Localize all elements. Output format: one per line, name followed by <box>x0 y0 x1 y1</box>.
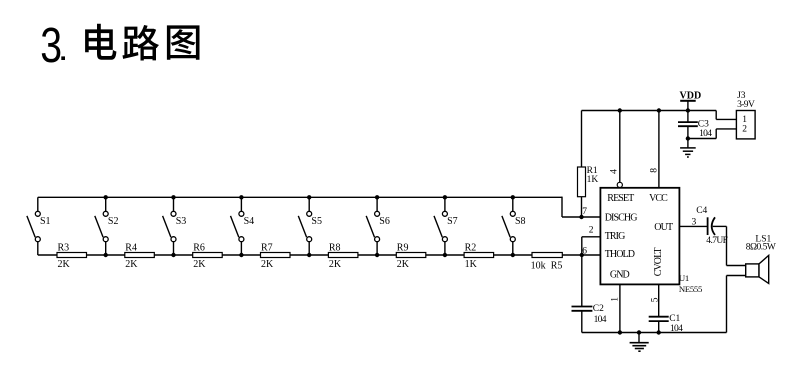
svg-text:R6: R6 <box>193 243 205 254</box>
resistor R4 <box>125 243 155 271</box>
wire C4 to speaker <box>713 226 746 265</box>
wire R1 top lead <box>581 111 583 168</box>
svg-text:R9: R9 <box>397 243 409 254</box>
svg-text:5: 5 <box>650 297 660 302</box>
svg-text:C4: C4 <box>696 206 707 216</box>
power symbol VDD <box>680 90 702 110</box>
node bottom bus junction at S6 <box>375 253 379 257</box>
connector J3 <box>736 91 755 139</box>
node top bus junction at S3 <box>171 195 175 199</box>
svg-text:1: 1 <box>611 297 621 302</box>
svg-text:S8: S8 <box>515 216 526 227</box>
node bottom bus junction at S4 <box>239 253 243 257</box>
ground main <box>630 333 649 352</box>
wire bottom switch bus <box>38 254 601 256</box>
svg-text:104: 104 <box>670 324 683 334</box>
node junction pin8/VDD rail <box>657 108 661 112</box>
svg-text:S2: S2 <box>108 216 119 227</box>
node junction TRIG/THOLD <box>580 253 584 257</box>
node top bus junction at S7 <box>443 195 447 199</box>
node bottom bus junction at S7 <box>443 253 447 257</box>
node junction C3/J3 <box>686 136 690 140</box>
svg-text:THOLD: THOLD <box>605 249 635 260</box>
svg-text:3: 3 <box>40 19 62 73</box>
svg-text:S5: S5 <box>311 216 322 227</box>
inversion bubble RESET <box>617 182 622 187</box>
wire speaker return <box>727 276 746 333</box>
title character 图 <box>167 25 200 59</box>
svg-text:R3: R3 <box>58 243 70 254</box>
ground below C3 <box>680 139 696 158</box>
wire DISCHG pin 7 lead <box>562 216 601 218</box>
svg-text:VCC: VCC <box>649 193 668 204</box>
wire J3 pin2 lead <box>688 129 737 139</box>
svg-text:8: 8 <box>650 168 660 173</box>
switch S8 <box>502 197 526 255</box>
svg-text:NE555: NE555 <box>679 284 702 294</box>
node top bus junction at S2 <box>104 195 108 199</box>
resistor R6 <box>193 243 223 271</box>
switch S4 <box>231 197 255 255</box>
switch S1 <box>27 197 51 255</box>
wire OUT pin 3 lead <box>679 225 708 227</box>
svg-text:RESET: RESET <box>607 193 634 204</box>
svg-text:GND: GND <box>610 270 630 281</box>
node junction VDD/C3 <box>686 108 690 112</box>
svg-text:4.7UF: 4.7UF <box>706 236 727 246</box>
title numeral 3. <box>40 19 65 73</box>
node top bus junction at S4 <box>239 195 243 199</box>
svg-text:104: 104 <box>594 315 607 325</box>
svg-text:C1: C1 <box>669 314 680 324</box>
resistor R8 <box>328 243 358 271</box>
capacitor C3 <box>678 111 712 140</box>
wire J3 pin1 lead <box>716 111 736 120</box>
svg-text:2K: 2K <box>329 259 342 270</box>
resistor R1 <box>578 166 599 197</box>
svg-text:S4: S4 <box>244 216 255 227</box>
svg-text:S3: S3 <box>176 216 187 227</box>
svg-text:TRIG: TRIG <box>605 231 625 242</box>
svg-text:4: 4 <box>610 169 620 174</box>
svg-text:3-9V: 3-9V <box>737 100 755 110</box>
svg-text:1: 1 <box>742 115 747 125</box>
svg-text:VDD: VDD <box>680 90 702 101</box>
node top bus junction at S8 <box>511 195 515 199</box>
svg-text:2K: 2K <box>193 259 206 270</box>
svg-text:2: 2 <box>589 226 594 236</box>
node junction R1/DISCHG <box>579 215 583 219</box>
svg-text:3: 3 <box>692 217 697 227</box>
node bottom bus junction at S5 <box>307 253 311 257</box>
node junction ground symbol/bus <box>637 330 641 334</box>
svg-text:8Ω0.5W: 8Ω0.5W <box>746 243 776 253</box>
node bottom bus junction at S2 <box>104 253 108 257</box>
svg-text:S1: S1 <box>40 216 51 227</box>
svg-text:10k: 10k <box>531 260 546 271</box>
svg-text:R4: R4 <box>125 243 137 254</box>
svg-text:U1: U1 <box>679 273 689 283</box>
resistor R7 <box>261 243 291 271</box>
resistor R9 <box>396 243 426 271</box>
wire R1 bottom lead <box>581 197 583 217</box>
svg-text:7: 7 <box>582 207 587 217</box>
svg-text:1K: 1K <box>587 175 599 185</box>
svg-text:R8: R8 <box>329 243 341 254</box>
wire TRIG riser and pin 2 lead <box>582 237 601 255</box>
wire VDD rail <box>582 110 717 112</box>
svg-text:OUT: OUT <box>654 222 673 233</box>
svg-text:2K: 2K <box>58 259 71 270</box>
switch S2 <box>95 197 119 255</box>
svg-text:C2: C2 <box>593 304 604 314</box>
capacitor C4 (polarized) <box>696 206 727 246</box>
svg-text:2K: 2K <box>397 259 410 270</box>
svg-text:2K: 2K <box>125 259 138 270</box>
resistor R3 <box>57 243 87 271</box>
wire ground bus <box>582 332 727 334</box>
resistor R5 <box>531 253 563 272</box>
resistor R2 <box>464 243 494 271</box>
wire top switch bus <box>38 197 562 217</box>
svg-text:104: 104 <box>699 129 712 139</box>
svg-text:R2: R2 <box>465 243 477 254</box>
svg-text:R5: R5 <box>551 260 563 271</box>
switch S7 <box>434 197 458 255</box>
switch S5 <box>298 197 322 255</box>
wire VCC pin 8 lead <box>658 111 660 188</box>
switch S3 <box>163 197 187 255</box>
svg-text:2: 2 <box>742 125 747 135</box>
svg-text:1K: 1K <box>465 259 478 270</box>
node top bus junction at S5 <box>307 195 311 199</box>
node junction GND/bus <box>618 330 622 334</box>
node junction pin4/VDD rail <box>618 108 622 112</box>
wire GND pin 1 lead <box>619 284 621 332</box>
speaker LS1 <box>746 235 776 284</box>
svg-text:S6: S6 <box>379 216 390 227</box>
switch S6 <box>366 197 390 255</box>
node junction C1/bus <box>657 330 661 334</box>
capacitor C2 <box>572 255 607 333</box>
svg-text:CVOLT: CVOLT <box>653 248 664 277</box>
title character 电 <box>85 24 116 60</box>
svg-text:DISCHG: DISCHG <box>605 213 638 224</box>
IC U1 NE555 body <box>600 188 679 285</box>
svg-text:S7: S7 <box>447 216 458 227</box>
node bottom bus junction at S3 <box>171 253 175 257</box>
svg-text:2K: 2K <box>261 259 274 270</box>
node bottom bus junction at S8 <box>511 253 515 257</box>
node top bus junction at S6 <box>375 195 379 199</box>
wire RESET pin 4 lead <box>619 111 621 183</box>
title character 路 <box>123 25 160 61</box>
svg-text:R7: R7 <box>261 243 273 254</box>
capacitor C1 <box>649 284 683 334</box>
svg-text:C3: C3 <box>698 120 709 130</box>
svg-text:6: 6 <box>582 247 587 257</box>
